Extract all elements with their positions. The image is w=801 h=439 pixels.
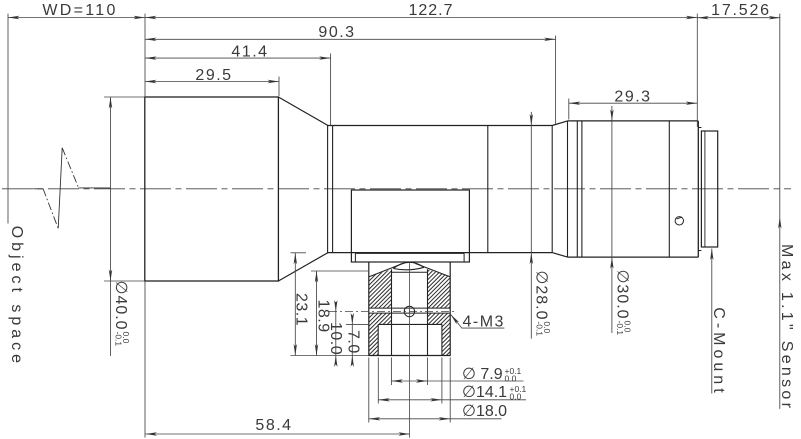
foot hatch right mid (428, 313, 451, 324)
foot top saddle slants (369, 263, 404, 277)
bottom chamfer cone (278, 253, 328, 281)
counterbore d14.1 (378, 323, 442, 325)
svg-text:4-M3: 4-M3 (463, 313, 505, 330)
label 10.0 rotated (327, 322, 344, 355)
sensor plane line (779, 14, 781, 409)
lens front body box (d40) (145, 97, 279, 281)
svg-text:∅18.0: ∅18.0 (462, 403, 507, 420)
taper d28 to d30 (552, 121, 567, 126)
M3 hole circle (404, 306, 414, 316)
svg-text:WD=110: WD=110 (42, 2, 117, 19)
screw hole walls d7.9 (391, 269, 393, 355)
barrel d28 joint ring (487, 126, 489, 253)
barrel d28 bottom edge (328, 252, 553, 254)
neck step to C-mount (698, 127, 701, 129)
dim 41.4 (145, 57, 331, 59)
label Max 1.1 inch Sensor rotated (778, 244, 795, 411)
svg-text:C-Mount: C-Mount (710, 307, 727, 396)
step extension line (346, 323, 369, 325)
dim 7.0 (351, 316, 353, 365)
foot hatch right lower (442, 324, 450, 355)
C-mount flange extension line (696, 14, 698, 127)
dim 29.3 (569, 102, 698, 104)
dim 58.4 (146, 433, 410, 435)
dim d14.1 (378, 399, 526, 401)
svg-text:∅30.0: ∅30.0 (613, 270, 630, 320)
svg-text:10.0: 10.0 (327, 322, 344, 355)
svg-text:∅40.0: ∅40.0 (112, 281, 129, 331)
svg-text:∅28.0: ∅28.0 (533, 270, 550, 320)
optical axis centerline (2, 188, 791, 190)
barrel d28 top edge (328, 125, 553, 127)
dim 18.9 (316, 271, 318, 356)
label 18.9 rotated (314, 300, 331, 333)
mount block (351, 190, 469, 262)
mount block base plate (355, 252, 464, 254)
dim WD=110 (8, 17, 145, 19)
barrel d30 outline (568, 120, 699, 122)
foot hatch left upper (369, 269, 392, 308)
foot vertical center line (408, 263, 410, 438)
dim 23.1 (294, 253, 296, 356)
svg-text:0.0: 0.0 (510, 392, 522, 402)
dim d40 (110, 97, 112, 356)
set screw on d30 barrel (675, 217, 683, 225)
sensor leader arrow (778, 217, 781, 229)
foot hatch left lower (369, 324, 378, 355)
barrel d28 end ring (551, 126, 553, 253)
mounting foot outline (369, 262, 450, 355)
svg-text:29.5: 29.5 (195, 67, 232, 84)
svg-text:7.0: 7.0 (344, 330, 361, 354)
dim 10.0 (335, 302, 337, 365)
svg-text:-0.1: -0.1 (615, 321, 625, 336)
dim d28 (530, 112, 532, 339)
svg-text:23.1: 23.1 (292, 293, 309, 326)
C-mount thread ring (701, 131, 717, 247)
svg-text:-0.1: -0.1 (114, 332, 124, 347)
dim d7.9 (391, 380, 523, 382)
svg-text:0.0: 0.0 (505, 374, 517, 384)
svg-text:∅ 7.9: ∅ 7.9 (462, 366, 503, 383)
foot hatch left mid (369, 313, 392, 324)
dim d30 (611, 106, 613, 333)
foot bottom extension line (291, 355, 369, 357)
svg-text:17.526: 17.526 (711, 2, 771, 19)
cone end ring lines (327, 126, 329, 253)
break zigzag symbol (33, 188, 43, 190)
label d40 rotated (112, 281, 131, 347)
dim 122.7 (145, 17, 697, 19)
label C-Mount rotated (710, 307, 727, 396)
front face extension line (144, 14, 146, 97)
svg-text:122.7: 122.7 (408, 2, 453, 19)
barrel d30 rear face (697, 121, 699, 257)
dim 29.5 (145, 81, 279, 83)
4-M3 leader (451, 314, 505, 328)
svg-text:90.3: 90.3 (318, 24, 355, 41)
object plane line (7, 14, 9, 224)
top chamfer cone (278, 97, 328, 126)
dim 90.3 (145, 38, 556, 40)
dim d18.0 (369, 418, 502, 420)
svg-text:Max 1.1" Sensor: Max 1.1" Sensor (778, 244, 795, 411)
label d30 rotated (613, 270, 632, 336)
svg-text:-0.1: -0.1 (534, 321, 544, 336)
label Object space rotated (8, 226, 25, 367)
M3 hole centerline (329, 311, 456, 313)
label 7.0 rotated (344, 330, 361, 354)
cross hole band (369, 307, 450, 309)
barrel dome in saddle (393, 262, 424, 268)
svg-text:29.3: 29.3 (614, 88, 651, 105)
svg-text:Object space: Object space (8, 226, 25, 367)
dim 17.526 (697, 17, 780, 19)
svg-text:41.4: 41.4 (231, 43, 268, 60)
hole seat line (392, 271, 428, 273)
svg-text:∅14.1: ∅14.1 (462, 384, 507, 401)
svg-text:58.4: 58.4 (255, 417, 292, 434)
foot hatch right upper (428, 269, 451, 308)
label d28 rotated (533, 270, 552, 336)
label 23.1 rotated (292, 293, 309, 326)
C-mount leader (711, 249, 713, 394)
